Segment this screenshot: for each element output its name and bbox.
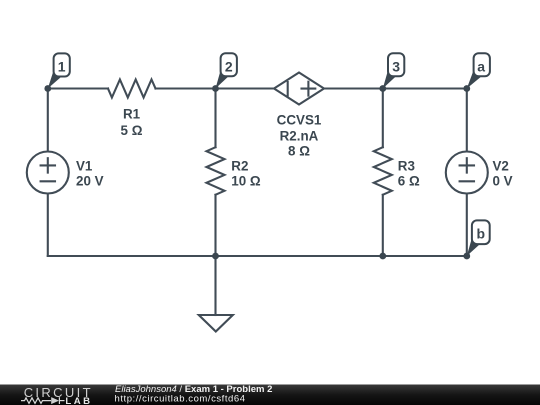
voltage source V2 body [446, 152, 488, 194]
node flag a [467, 53, 490, 88]
node 2 junction dot [212, 85, 219, 92]
svg-text:6 Ω: 6 Ω [398, 174, 420, 189]
wire: node 2 to CCVS1 left [216, 87, 275, 89]
svg-text:1: 1 [58, 58, 66, 74]
V2 minus sign [460, 180, 474, 182]
svg-text:2: 2 [225, 58, 233, 74]
svg-text:R3: R3 [398, 159, 415, 174]
svg-text:R2.nA: R2.nA [280, 128, 319, 143]
node b junction dot [463, 253, 470, 260]
logo resistor squiggle [21, 397, 65, 404]
svg-text:b: b [477, 226, 486, 242]
wire: node 3 down to R3 top [382, 89, 384, 148]
svg-text:R2: R2 [231, 159, 248, 174]
svg-text:3: 3 [392, 58, 400, 74]
wire: V2 bottom to node b [466, 194, 468, 257]
svg-text:http://circuitlab.com/csftd64: http://circuitlab.com/csftd64 [115, 393, 246, 404]
junction dot bottom R2 [212, 253, 219, 260]
resistor R1 [108, 80, 156, 98]
voltage source V1 body [27, 152, 69, 194]
wire: node 1 down to V1 top [47, 89, 49, 152]
node flag 1 [48, 53, 70, 88]
svg-text:V2: V2 [493, 159, 509, 174]
svg-text:10 Ω: 10 Ω [231, 174, 261, 189]
CCVS1 minus sign (rotated) [287, 82, 289, 96]
svg-text:CCVS1: CCVS1 [277, 112, 322, 127]
wire: R3 bottom to bottom rail [382, 195, 384, 256]
ground [199, 315, 233, 332]
V1 minus sign [41, 180, 55, 182]
svg-text:20 V: 20 V [76, 174, 104, 189]
node flag 3 [383, 53, 405, 88]
svg-text:0 V: 0 V [493, 174, 513, 189]
wire: R2 bottom to bottom rail [214, 195, 216, 256]
svg-text:8 Ω: 8 Ω [288, 143, 310, 158]
op CCVS1 diamond body [274, 73, 324, 105]
logo diode triangle [51, 397, 59, 404]
junction dot bottom R3 [379, 253, 386, 260]
wire bottom rail [48, 255, 467, 257]
wire: ground stem [214, 256, 216, 315]
wire: node 2 down to R2 top [214, 89, 216, 148]
svg-text:R1: R1 [123, 107, 141, 122]
V2 plus sign [460, 164, 474, 166]
resistor R3 [374, 147, 392, 195]
CCVS1 plus sign [302, 88, 316, 90]
V1 plus sign [41, 164, 55, 166]
svg-text:5 Ω: 5 Ω [121, 123, 143, 138]
wire: node 3 to node a [383, 87, 467, 89]
svg-text:V1: V1 [76, 159, 93, 174]
wire: V1 bottom to bottom rail [47, 194, 49, 257]
resistor R2 [207, 147, 225, 195]
svg-text:a: a [477, 58, 485, 74]
node flag b [467, 220, 490, 256]
node 1 junction dot [44, 85, 51, 92]
svg-text:LAB: LAB [65, 396, 92, 405]
wire: R1 right lead to node 2 [156, 87, 216, 89]
node 3 junction dot [379, 85, 386, 92]
node flag 2 [216, 53, 237, 88]
wire: node a down to V2 top [466, 89, 468, 152]
node a junction dot [463, 85, 470, 92]
wire top: node 1 to R1 left lead [48, 87, 108, 89]
wire: CCVS1 right to node 3 [324, 87, 383, 89]
